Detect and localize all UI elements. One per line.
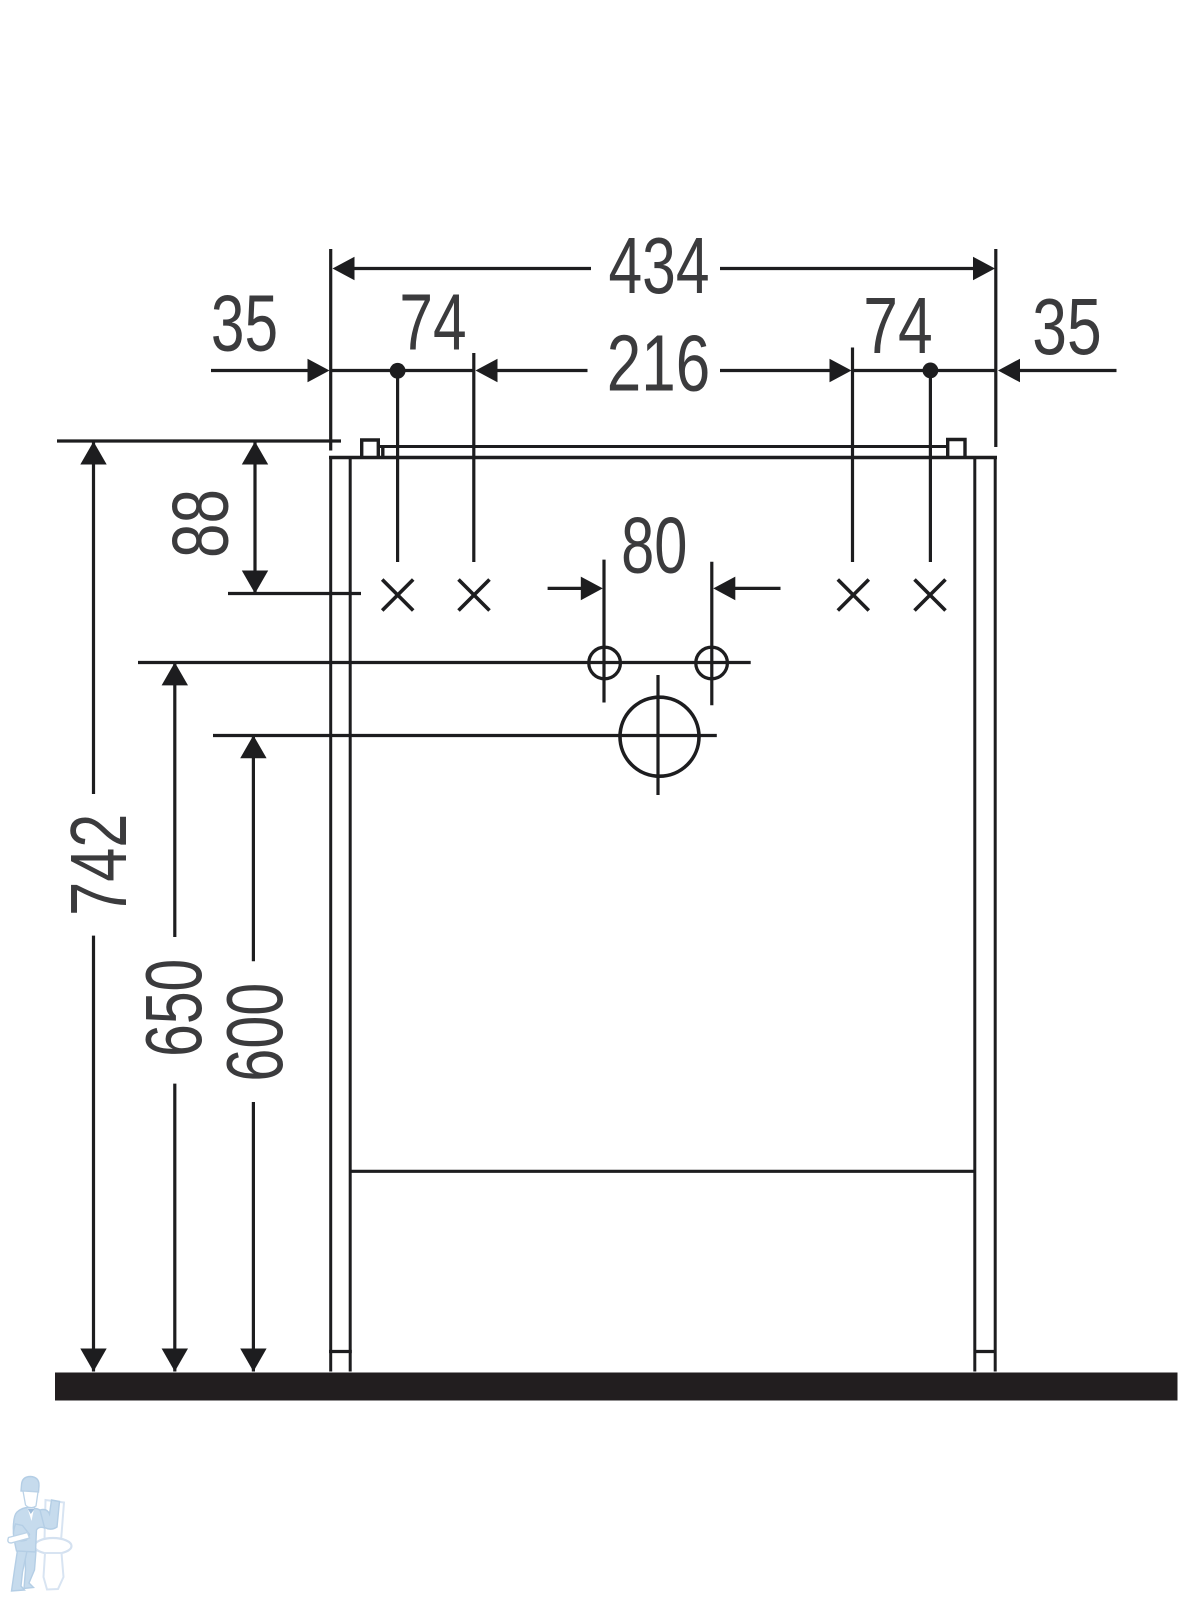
arrow 216 right bbox=[830, 359, 852, 383]
arrow 88 bottom bbox=[242, 571, 268, 594]
svg-text:650: 650 bbox=[128, 959, 218, 1057]
arrow 80 right bbox=[713, 577, 735, 601]
cabinet right panel bbox=[975, 458, 995, 1372]
wall bracket right bbox=[948, 440, 965, 458]
svg-text:742: 742 bbox=[55, 814, 144, 916]
arrow 434 right bbox=[973, 257, 995, 281]
arrow 742 top bbox=[80, 442, 106, 465]
dimension line 742 bbox=[92, 442, 95, 795]
hole leader line left bbox=[396, 379, 399, 563]
extension line 80 right bbox=[710, 562, 713, 706]
svg-text:74: 74 bbox=[863, 282, 932, 371]
arrow 35 left bbox=[308, 359, 330, 383]
drill mark x3 bbox=[838, 580, 869, 611]
svg-text:88: 88 bbox=[156, 489, 245, 558]
drain hole centerline vertical bbox=[656, 675, 659, 795]
svg-text:35: 35 bbox=[1032, 283, 1101, 372]
left foot tick bbox=[329, 1350, 352, 1353]
plumber front leg bbox=[12, 1550, 28, 1591]
dimension line 600 bbox=[252, 735, 255, 961]
svg-text:35: 35 bbox=[211, 279, 278, 368]
plumber forearm with wrench bbox=[13, 1524, 29, 1541]
dimension line 35/74/216 row bbox=[211, 369, 309, 372]
hole dot left bbox=[390, 363, 406, 379]
dimension line 80 bbox=[548, 587, 584, 590]
toilet base bbox=[44, 1553, 64, 1590]
countertop top line bbox=[379, 445, 948, 448]
arrow 650 bottom bbox=[162, 1349, 188, 1372]
dimension line 650 bbox=[173, 662, 176, 937]
floor bar bbox=[55, 1373, 1178, 1401]
arrow 88 top bbox=[242, 442, 268, 465]
dimension line 88 bbox=[253, 442, 256, 594]
svg-text:600: 600 bbox=[209, 983, 299, 1082]
cabinet top edge bbox=[329, 456, 997, 459]
drill mark x4 bbox=[915, 580, 946, 611]
arrow 600 bottom bbox=[240, 1349, 266, 1372]
wrench bbox=[8, 1533, 30, 1544]
shirt bbox=[28, 1508, 35, 1521]
plumber face bbox=[23, 1491, 38, 1508]
extension line right (434) bbox=[994, 249, 997, 447]
arrow 35 right bbox=[998, 359, 1020, 383]
wall bracket left bbox=[362, 440, 383, 458]
drill mark x2 bbox=[459, 580, 490, 611]
svg-text:80: 80 bbox=[621, 500, 687, 590]
reference line through small holes (650 level) bbox=[138, 661, 751, 664]
extension line left (434) bbox=[329, 249, 332, 451]
wall reference top line bbox=[57, 439, 341, 442]
hole dot right bbox=[923, 363, 939, 379]
cabinet left panel bbox=[331, 458, 351, 1372]
toilet bowl rim bbox=[35, 1538, 72, 1554]
bow tie bbox=[28, 1509, 35, 1515]
extension line 216 left bbox=[472, 353, 475, 562]
reference line through big hole (600 level) bbox=[213, 734, 717, 737]
dimension line 434 bbox=[354, 267, 592, 270]
arrow 434 left bbox=[333, 257, 355, 281]
plumber jacket bbox=[13, 1508, 46, 1553]
svg-text:74: 74 bbox=[399, 278, 466, 367]
drain hole big circle bbox=[620, 697, 699, 776]
right foot tick bbox=[974, 1350, 997, 1353]
watermark plumber figure bbox=[8, 1477, 72, 1592]
plumber arm on tank bbox=[40, 1500, 60, 1529]
arrow 742 bottom bbox=[80, 1349, 106, 1372]
88 end tick line bbox=[228, 592, 361, 595]
hole leader line right bbox=[929, 378, 932, 562]
svg-text:216: 216 bbox=[607, 319, 710, 408]
arrow 650 top bbox=[162, 662, 188, 685]
drill mark x1 bbox=[382, 580, 413, 611]
plumber rear leg bbox=[24, 1550, 36, 1589]
cabinet bottom edge bbox=[350, 1170, 975, 1173]
arrow 80 left bbox=[581, 577, 603, 601]
extension line 80 left bbox=[602, 560, 605, 703]
extension line 216 right bbox=[851, 348, 854, 563]
toilet tank bbox=[45, 1500, 65, 1541]
plumber cap bbox=[21, 1477, 39, 1493]
arrow 74 left closing bbox=[476, 359, 498, 383]
faucet hole right circle bbox=[696, 647, 728, 679]
arrow 600 top bbox=[240, 735, 266, 758]
svg-text:434: 434 bbox=[608, 222, 709, 311]
faucet hole left circle bbox=[589, 647, 621, 679]
